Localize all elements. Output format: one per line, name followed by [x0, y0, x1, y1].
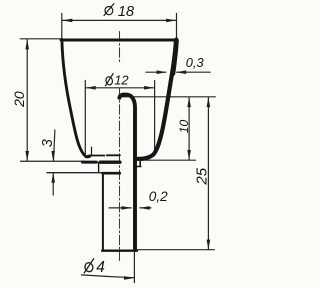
tube bottom edge [102, 249, 137, 251]
wire: 0,3 leader left segment [146, 71, 166, 73]
svg-text:3: 3 [40, 139, 56, 147]
arrowhead 20 bottom [25, 151, 29, 161]
wire: 10 dimension line [188, 97, 190, 160]
svg-text:0,3: 0,3 [186, 55, 204, 70]
svg-text:12: 12 [114, 73, 129, 88]
arrowhead dia18 left [62, 19, 72, 23]
washer bottom line inner part [103, 172, 120, 175]
wall inner surface tick [91, 147, 93, 156]
washer hole right edge step vertical [139, 162, 141, 167]
svg-text:18: 18 [118, 4, 134, 20]
arrowhead 25 top [207, 97, 211, 107]
svg-text:4: 4 [96, 259, 105, 276]
arrowhead dia12 left [86, 86, 96, 90]
wire: dia12 left extension line [84, 81, 86, 157]
wire: dia12 dimension line [86, 87, 154, 89]
arrowhead dia4 right-pointing [124, 276, 134, 280]
washer hole left edge [98, 162, 100, 171]
label dia4 diameter symbol [84, 258, 94, 273]
cup left wall [62, 40, 90, 157]
tube left wall [102, 173, 104, 250]
washer top thick band right segment [100, 160, 120, 163]
washer hole right edge step horizontal [137, 166, 141, 168]
wire: dia18 left extension line [61, 14, 63, 39]
wire: 3 dimension line upper segment [54, 130, 55, 160]
arrowhead 10 bottom [187, 150, 191, 160]
wire: flare top extension line (y=96.8) [122, 96, 215, 98]
svg-text:25: 25 [194, 167, 211, 185]
arrowhead 3 up [51, 173, 55, 183]
wire: 10 bottom extension line (y=160.2) [138, 159, 196, 161]
wire: washer bottom extension line (y=172.7) [47, 172, 103, 174]
arrowhead 0,2 left-pointing [140, 206, 150, 210]
cup rim (top edge) [61, 39, 177, 42]
cup right wall [137, 40, 177, 159]
wire: 0,3 leader right segment [177, 71, 211, 73]
wire: 0,2 leader left segment [109, 207, 131, 209]
wire: dia4 extension line below tube [133, 253, 135, 283]
label dia18 diameter symbol [104, 3, 115, 16]
wire: 3 dimension line lower segment [52, 173, 54, 195]
wire: dia18 dimension line [62, 19, 176, 21]
wire: cup bottom extension line (upper, y=160.7) [21, 160, 85, 162]
svg-text:20: 20 [11, 91, 27, 108]
wire: 25 dimension line [207, 97, 209, 249]
arrowhead 0,3 right-pointing [157, 70, 167, 74]
tube flare curl and right wall [119, 95, 135, 250]
arrowhead 25 bottom [207, 240, 211, 250]
wire: rim left extension line to 20-dim [20, 38, 61, 40]
arrowhead 10 top [187, 97, 191, 107]
arrowhead 0,3 left-pointing [176, 70, 186, 74]
wire: dia4 leader line [82, 275, 134, 278]
label dia12 diameter symbol [105, 73, 113, 86]
cup right wall upper thick segment [173, 41, 177, 74]
svg-text:0,2: 0,2 [149, 189, 168, 204]
wire: 0,2 leader right segment [140, 207, 151, 209]
arrowhead 3 down [51, 151, 55, 161]
arrowhead dia18 right [166, 19, 176, 23]
arrowhead dia12 right [144, 86, 154, 90]
washer top thick band left segment [83, 161, 97, 164]
wire: dia12 right extension line [154, 81, 156, 151]
wire: dia18 right extension line [176, 14, 178, 39]
cup inner bottom line left segment [88, 155, 105, 157]
arrowhead 20 top [25, 39, 29, 49]
arrowhead 0,2 right-pointing [122, 206, 132, 210]
wire: 25 bottom extension line (y=249.7) [138, 249, 215, 251]
wire: 20 dimension line [26, 40, 28, 161]
svg-text:10: 10 [177, 120, 191, 134]
cup inner bottom line right segment [107, 154, 120, 156]
centerline (part axis, dash-dot) [119, 32, 121, 64]
